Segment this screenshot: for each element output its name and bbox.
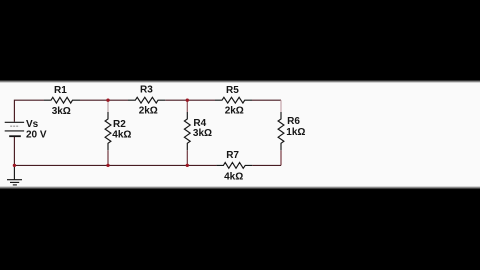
label R7 [226, 150, 239, 161]
svg-text:1kΩ: 1kΩ [286, 127, 305, 138]
value R7 4kΩ [224, 172, 243, 183]
svg-text:3kΩ: 3kΩ [52, 106, 71, 117]
resistor R1 [44, 97, 80, 103]
resistor R2 [105, 112, 111, 150]
svg-text:R3: R3 [140, 85, 153, 96]
label R1 [54, 85, 67, 96]
label Vs [26, 119, 39, 130]
resistor R7 [216, 163, 252, 169]
wire R1 to node A [80, 99, 108, 101]
svg-text:R1: R1 [54, 85, 67, 96]
wire Vs+ to R1 [14, 100, 44, 122]
label R4 [193, 118, 206, 129]
label R2 [113, 119, 126, 130]
node A junction dot [106, 99, 109, 102]
wire node B to R4 top [186, 100, 188, 112]
node E junction dot [186, 164, 189, 167]
label R5 [226, 85, 239, 96]
wire Vs- to ground node [13, 136, 15, 165]
wire bottom right to R7 [252, 164, 281, 166]
wire R2 bottom to node D [107, 150, 109, 165]
label R3 [140, 85, 153, 96]
wire bottom rail node E to node D [108, 164, 187, 166]
wire node B to R5 [187, 99, 215, 101]
svg-text:R5: R5 [226, 85, 239, 96]
battery source Vs [5, 122, 24, 136]
svg-text:4kΩ: 4kΩ [224, 172, 243, 183]
svg-text:2kΩ: 2kΩ [225, 106, 244, 117]
resistor R6 [278, 112, 284, 150]
wire node A to R2 top [107, 100, 109, 112]
value R2 4kΩ [112, 130, 131, 141]
svg-text:2kΩ: 2kΩ [139, 106, 158, 117]
node B junction dot [186, 99, 189, 102]
wire R4 bottom to node E [186, 150, 188, 165]
resistor R4 [184, 112, 190, 150]
node D junction dot [106, 164, 109, 167]
svg-text:4kΩ: 4kΩ [112, 130, 131, 141]
wire node A to R3 [108, 99, 128, 101]
svg-text:3kΩ: 3kΩ [193, 128, 212, 139]
wire R6 bottom to R7 [280, 150, 282, 165]
ground node junction dot [13, 164, 16, 167]
resistor R3 [128, 97, 165, 103]
value R3 2kΩ [139, 106, 158, 117]
label R6 [287, 116, 300, 127]
wire R3 to node B [165, 99, 187, 101]
wire right rail upper [280, 100, 282, 112]
value 20 V [26, 129, 47, 140]
value R6 1kΩ [286, 127, 305, 138]
svg-text:R6: R6 [287, 116, 300, 127]
value R1 3kΩ [52, 106, 71, 117]
wire R7 to node E [187, 164, 216, 166]
ground [7, 165, 22, 185]
value R5 2kΩ [225, 106, 244, 117]
svg-text:R7: R7 [226, 150, 239, 161]
wire R5 to R6 top [252, 99, 281, 101]
resistor R5 [215, 97, 252, 103]
svg-text:20 V: 20 V [26, 129, 47, 140]
value R4 3kΩ [193, 128, 212, 139]
wire bottom rail node D to ground node [14, 164, 108, 166]
svg-text:R2: R2 [113, 119, 126, 130]
